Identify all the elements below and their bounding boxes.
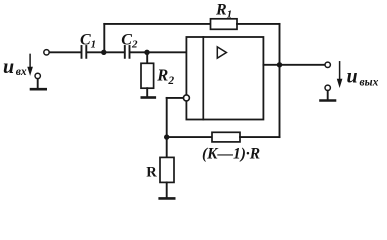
- svg-text:вх: вх: [16, 66, 27, 78]
- wire node C down to R: [166, 137, 168, 157]
- wire node A up to top rail: [103, 24, 105, 52]
- ground (under R2): [142, 96, 155, 99]
- wire C1 to node A: [88, 51, 104, 53]
- wire input ground stub: [37, 79, 39, 88]
- wire down to node C: [166, 98, 168, 137]
- wire R to ground: [166, 182, 168, 197]
- output arrow u_vyh: [337, 62, 343, 88]
- svg-text:C2: C2: [121, 32, 138, 51]
- output ground terminal (open circle): [325, 85, 330, 90]
- svg-text:R1: R1: [215, 1, 232, 20]
- wire input terminal to C1: [50, 51, 81, 53]
- wire top rail to R1: [104, 23, 210, 25]
- op-amp U1 inner divider: [202, 37, 204, 120]
- ground (input): [31, 88, 46, 91]
- input ground terminal (open circle): [35, 73, 40, 78]
- output terminal (open circle): [325, 62, 330, 67]
- input arrow u_vh: [27, 54, 33, 76]
- op-amp U1 (amplifier block): [186, 37, 263, 120]
- wire (K-1)R to feedback vertical: [240, 136, 280, 138]
- wire node A to C2: [104, 51, 124, 53]
- wire feedback vertical (R1 / output node / (K-1)R rail): [279, 24, 281, 137]
- svg-text:C1: C1: [80, 32, 96, 51]
- node D (output / feedback junction): [277, 62, 282, 67]
- wire node B down to R2: [146, 52, 148, 63]
- node A (junction C1/C2/R1 branch): [101, 50, 106, 55]
- svg-text:R2: R2: [156, 66, 174, 88]
- op-amp U1 triangle symbol: [217, 47, 226, 58]
- wire R1 to feedback vertical: [237, 23, 280, 25]
- node B (junction C2/R2): [144, 50, 149, 55]
- wire op-amp output: [263, 64, 325, 66]
- wire node B to op-amp input: [147, 51, 186, 53]
- resistor R: [160, 157, 174, 182]
- resistor R1: [211, 19, 238, 30]
- capacitor C1: [82, 46, 87, 58]
- node C (junction R / (K-1)R / feedback): [164, 134, 169, 139]
- wire op-amp feedback terminal to left: [167, 97, 184, 99]
- resistor R2: [141, 63, 154, 88]
- svg-text:(K—1)·R: (K—1)·R: [202, 146, 260, 163]
- wire R2 to ground: [146, 88, 148, 96]
- op-amp U1 feedback input terminal (open circle on left edge): [183, 95, 189, 101]
- svg-text:вых: вых: [360, 77, 379, 89]
- svg-text:u: u: [3, 56, 14, 78]
- ground (output): [321, 99, 336, 102]
- svg-text:u: u: [347, 66, 358, 88]
- ground (under R): [160, 197, 175, 200]
- wire output ground stub: [327, 91, 329, 100]
- input terminal (open circle): [44, 50, 49, 55]
- wire C2 to node B: [131, 51, 148, 53]
- resistor (K-1)R: [212, 132, 240, 142]
- svg-text:R: R: [146, 164, 157, 180]
- wire node C to (K-1)R: [167, 136, 212, 138]
- capacitor C2: [125, 46, 130, 58]
